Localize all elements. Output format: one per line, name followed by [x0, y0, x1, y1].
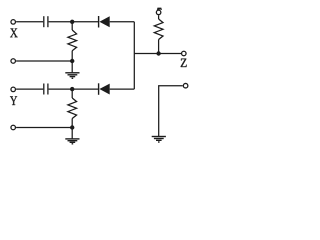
- node E junction: [156, 51, 160, 55]
- capacitor C2: [44, 84, 48, 95]
- ground G2: [65, 139, 79, 144]
- wire X to C1: [16, 21, 43, 23]
- diode D1: [99, 16, 110, 28]
- wire bus vertical: [133, 22, 135, 89]
- terminal V supply: [156, 10, 161, 15]
- wire C2 to node C: [49, 88, 73, 90]
- wire C1 to node A: [49, 21, 73, 23]
- resistor R2: [68, 89, 77, 127]
- terminal X input: [11, 20, 16, 25]
- capacitor C1: [44, 16, 48, 27]
- label Z: [181, 59, 187, 67]
- ground G3: [152, 137, 166, 143]
- wire Y to C2: [16, 88, 43, 90]
- node C junction: [70, 87, 74, 91]
- terminal Y input: [11, 87, 16, 92]
- wire node E to Z: [159, 53, 181, 55]
- label Y: [10, 96, 17, 105]
- wire D2 to bus: [110, 88, 135, 90]
- wire node A to D1: [72, 21, 98, 23]
- terminal Y return: [11, 125, 16, 130]
- label X: [10, 29, 18, 38]
- wire D1 to bus: [110, 21, 135, 23]
- node D junction: [70, 125, 74, 129]
- node B junction: [70, 59, 74, 63]
- wire node C to D2: [72, 88, 98, 90]
- terminal Z output: [182, 51, 187, 56]
- node A junction: [70, 20, 74, 24]
- terminal bottom-right: [183, 83, 188, 88]
- wire bottom-right terminal to ground: [159, 86, 183, 136]
- wire bus to node E: [134, 53, 158, 55]
- wire node B to ground: [71, 61, 73, 72]
- supply arrow tick: [157, 8, 162, 11]
- resistor R3: [154, 15, 163, 53]
- diode D2: [99, 83, 110, 95]
- resistor R1: [68, 22, 77, 61]
- wire X return to node B: [16, 60, 72, 62]
- wire Y return to node D: [16, 127, 72, 129]
- ground G1: [65, 73, 79, 79]
- wire node D to ground: [71, 128, 73, 139]
- terminal X return: [11, 59, 16, 64]
